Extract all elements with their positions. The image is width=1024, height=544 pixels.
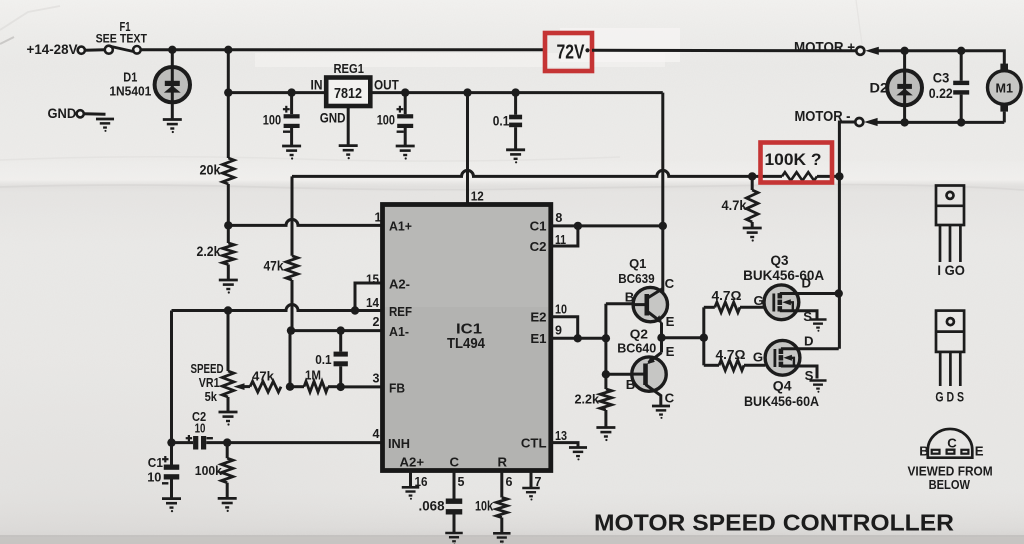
junction fb cap bottom [337, 383, 345, 391]
wire pin7 to ground [530, 471, 533, 488]
wire 2.2k to ground [227, 265, 230, 280]
junction pin8/11 bracket [574, 222, 582, 230]
wire pin13 CTL to ground [551, 443, 578, 447]
regulator REG1 7812 [326, 78, 370, 107]
wire pin5 to .068 cap [453, 471, 456, 499]
junction C3 top [957, 47, 965, 55]
junction C2 left / C1 column [167, 438, 175, 446]
junction 0.1 cap [511, 88, 519, 96]
svg-text:47k: 47k [252, 369, 275, 384]
svg-text:10: 10 [555, 303, 567, 317]
ground pin16 [402, 487, 419, 500]
svg-text:14: 14 [366, 296, 379, 310]
wire FB pin3 [341, 385, 383, 388]
wire motor+ rail [878, 51, 1004, 64]
junction D2 top [900, 47, 908, 55]
ground below 0.1 cap [506, 150, 525, 164]
svg-text:C3: C3 [933, 70, 950, 85]
resistor 1M [290, 385, 304, 388]
wire motor- line [878, 121, 1005, 124]
svg-text:5: 5 [458, 475, 465, 489]
svg-text:I GO: I GO [937, 263, 965, 278]
junction pin12 branch [463, 88, 471, 96]
resistor 100K inline [752, 175, 782, 178]
svg-text:M1: M1 [996, 81, 1014, 96]
junction D2 bottom [900, 118, 908, 126]
wire IN line to REG1 [228, 91, 326, 94]
resistor 4.7ohm Q3 gate [715, 302, 740, 312]
svg-text:CTL: CTL [521, 436, 547, 451]
wire 72V to motor+ [592, 49, 856, 53]
TO-220 package I G O (7812 pinout) [936, 186, 964, 263]
junction +12 rail / C1C2 [659, 222, 667, 230]
resistor 47k horizontal [250, 381, 281, 392]
svg-text:BUK456-60A: BUK456-60A [743, 268, 824, 283]
svg-text:6: 6 [506, 475, 513, 489]
wire C2 to pin4 [206, 441, 382, 444]
ground below 100k [218, 498, 237, 512]
wire pin9 E1 line [551, 337, 606, 340]
wire motor- column to drains [838, 176, 841, 348]
svg-text:0.1: 0.1 [315, 352, 331, 367]
svg-text:0.22: 0.22 [929, 86, 953, 101]
svg-text:9: 9 [555, 324, 562, 338]
junction 0.1 fb cap top [337, 326, 345, 334]
capacitor C3 0.22 [960, 51, 963, 81]
svg-text:INH: INH [388, 436, 410, 451]
capacitor C2 10uF [172, 441, 194, 444]
ground below C1 [162, 499, 181, 513]
svg-text:10k: 10k [475, 498, 493, 514]
svg-text:100k: 100k [195, 463, 223, 478]
capacitor 100uF input [290, 93, 293, 115]
svg-text:E: E [975, 443, 984, 458]
junction 100uF cap 1 [287, 88, 295, 96]
wire fuse to 72V rail [141, 48, 546, 51]
svg-text:A2+: A2+ [400, 455, 425, 470]
wire REF to pot [227, 311, 230, 372]
svg-text:5k: 5k [205, 389, 218, 404]
svg-text:7812: 7812 [334, 86, 362, 102]
svg-text:A2-: A2- [389, 277, 410, 292]
svg-text:C1: C1 [530, 219, 547, 234]
svg-text:R: R [498, 455, 508, 470]
svg-text:4.7k: 4.7k [722, 198, 747, 213]
arrow motor- [864, 118, 878, 126]
ground below 2.2k [219, 280, 238, 294]
svg-text:100K ?: 100K ? [765, 150, 822, 169]
svg-text:G: G [754, 293, 764, 308]
resistor 100k [226, 443, 229, 459]
svg-text:100: 100 [263, 111, 281, 127]
svg-text:VR1: VR1 [199, 375, 220, 390]
wire A1- pin2 [291, 329, 383, 332]
svg-text:100: 100 [377, 111, 395, 127]
svg-text:.068: .068 [419, 498, 445, 514]
svg-text:C2: C2 [530, 239, 547, 254]
svg-text:D: D [804, 334, 814, 349]
junction Q2 base / 2.2k [602, 370, 610, 378]
wire emitters to gate splitter [662, 336, 704, 339]
wire 20k to junction [227, 184, 230, 243]
svg-text:OUT: OUT [374, 77, 399, 92]
ground Q4 source [809, 381, 826, 393]
transistor pinout viewed from below [928, 429, 973, 458]
svg-text:8: 8 [555, 211, 562, 225]
svg-text:1M: 1M [305, 368, 321, 383]
junction Q3 drain [835, 289, 843, 297]
svg-text:B: B [625, 289, 635, 304]
junction 100uF cap 2 [401, 88, 409, 96]
wire 47k to A1- line [291, 280, 294, 331]
wire gnd terminal [84, 112, 106, 115]
wire pin8 C1 line [551, 224, 663, 227]
svg-text:C: C [665, 276, 675, 291]
svg-text:20k: 20k [200, 163, 221, 178]
svg-text:2: 2 [373, 315, 380, 329]
wire 47k column [291, 176, 294, 255]
svg-text:E: E [666, 314, 675, 329]
wire base to Q2 [606, 373, 632, 376]
ground below 10k [493, 533, 510, 544]
svg-text:S: S [803, 309, 812, 324]
svg-text:MOTOR +: MOTOR + [794, 39, 855, 56]
junction base column [602, 334, 610, 342]
svg-text:TL494: TL494 [447, 336, 485, 352]
svg-text:REF: REF [389, 304, 412, 319]
capacitor C1 10uF [170, 443, 173, 465]
wire pin6 to 10k [500, 471, 503, 498]
ground below .068 [445, 533, 462, 544]
capacitor .068 [446, 499, 463, 504]
svg-text:3: 3 [373, 372, 380, 386]
svg-text:Q3: Q3 [771, 253, 789, 268]
junction gate splitter [700, 334, 708, 342]
pot wiper arrow [234, 383, 245, 390]
junction 47k/1M [286, 383, 294, 391]
svg-text:E2: E2 [530, 310, 546, 325]
svg-text:Q4: Q4 [773, 379, 792, 394]
svg-text:72V: 72V [557, 42, 586, 64]
ground below REG1 [339, 146, 358, 160]
junction top rail / D1 [168, 46, 176, 54]
svg-text:4.7Ω: 4.7Ω [712, 289, 742, 303]
svg-text:BC640: BC640 [617, 341, 656, 356]
svg-text:47k: 47k [264, 259, 284, 274]
junction E1/E2 bracket [574, 334, 582, 342]
junction IN-line [224, 88, 232, 96]
wire to Q4 gate resistor [704, 364, 719, 367]
red annotation box 100K ? [761, 143, 833, 183]
svg-text:15: 15 [366, 273, 379, 287]
arrow motor+ [865, 47, 879, 55]
svg-text:B: B [919, 443, 929, 458]
svg-text:11: 11 [555, 233, 566, 247]
svg-text:10: 10 [147, 470, 161, 485]
transistor Q4 BUK456-60A mosfet [765, 340, 800, 375]
potentiometer VR1 5k [222, 371, 234, 397]
svg-text:10: 10 [195, 420, 206, 435]
wire input to fuse [85, 48, 105, 51]
svg-text:REG1: REG1 [334, 61, 364, 76]
motor M1 [988, 71, 1022, 105]
red annotation box 72V [545, 33, 592, 71]
svg-text:D: D [802, 276, 812, 291]
svg-text:+14-28V: +14-28V [27, 42, 78, 57]
ground below 100uF input [282, 146, 301, 160]
capacitor 0.1 bypass [514, 93, 517, 115]
op-amp U1 IC1 TL494 body [383, 205, 551, 471]
ground at CTL [569, 448, 587, 461]
svg-text:A1-: A1- [389, 324, 409, 339]
svg-text:E: E [666, 344, 675, 359]
svg-text:GND: GND [48, 105, 77, 121]
svg-text:2.2k: 2.2k [197, 244, 221, 259]
svg-text:GND: GND [320, 110, 346, 126]
ground pin7 [522, 488, 539, 501]
svg-text:C: C [665, 390, 675, 405]
wire gate column [702, 307, 705, 365]
resistor 4.7ohm Q4 gate [719, 360, 744, 370]
svg-text:C: C [450, 455, 460, 470]
wire +12V rail from REG1 OUT [370, 91, 663, 94]
svg-text:D1: D1 [123, 71, 137, 85]
svg-text:4: 4 [373, 427, 380, 441]
node MOTOR - terminal [855, 118, 863, 126]
wire A1+ pin1 with hop [228, 219, 382, 225]
junction Q1/Q2 emitters [657, 334, 665, 342]
svg-text:IN: IN [311, 77, 323, 92]
wire rail down to 20k [227, 50, 230, 158]
ground below Q2 [652, 406, 670, 419]
svg-text:FB: FB [389, 381, 405, 396]
svg-text:Q1: Q1 [629, 256, 646, 271]
junction 100k top [223, 438, 231, 446]
ground below 4.7k [743, 228, 762, 242]
wire to Q3 gate resistor [704, 306, 715, 309]
junction top rail / 20k branch [224, 46, 232, 54]
svg-text:1N5401: 1N5401 [109, 84, 151, 99]
svg-text:A1+: A1+ [389, 219, 412, 234]
svg-text:13: 13 [555, 429, 567, 443]
svg-text:MOTOR SPEED CONTROLLER: MOTOR SPEED CONTROLLER [594, 510, 954, 536]
TO-220 package G D S (mosfet pinout) [936, 311, 964, 386]
ground Q3 source [809, 320, 826, 332]
svg-text:VIEWED FROM: VIEWED FROM [908, 465, 993, 479]
svg-text:E1: E1 [530, 331, 546, 346]
svg-text:4.7Ω: 4.7Ω [716, 348, 746, 362]
junction 4.7k / 100K [748, 172, 756, 180]
junction speed pot branch [224, 306, 232, 314]
ground below pot [219, 412, 238, 426]
resistor 2.2k base pulldown [604, 374, 607, 389]
wire M1 bottom [1003, 112, 1006, 123]
svg-text:SPEED: SPEED [191, 361, 224, 376]
wire A1- to 47k/1M junction [289, 331, 292, 387]
resistor 2.2k [223, 243, 235, 265]
junction C3 bottom [957, 118, 965, 126]
capacitor 0.1 feedback [339, 331, 342, 352]
svg-text:Q2: Q2 [630, 326, 648, 341]
wire pin15 bracket [355, 283, 383, 311]
resistor 10k [496, 497, 507, 517]
svg-text:B: B [626, 377, 636, 392]
fuse F1 SEE TEXT [105, 46, 113, 54]
svg-text:G D S: G D S [935, 390, 964, 405]
ground below D1 [163, 120, 182, 134]
svg-text:BUK456-60A: BUK456-60A [744, 394, 819, 409]
wire base column Q1 [604, 304, 607, 375]
junction pin15 bracket [351, 306, 359, 314]
wire pin10 E2 bracket [551, 317, 578, 339]
junction motor- column [835, 172, 843, 180]
wire REF pin14 with hop [172, 305, 383, 311]
resistor 20k [223, 158, 235, 184]
ground below 100uF output [396, 146, 415, 160]
capacitor 100uF output [404, 93, 407, 115]
resistor 4.7k pull-down [751, 176, 754, 190]
ground below 2.2k base [596, 428, 615, 442]
wire feedback line with hops [292, 170, 752, 176]
wire motor- to drain column [839, 122, 855, 176]
svg-text:12: 12 [471, 190, 484, 204]
wire pin11 bracket [551, 226, 578, 246]
svg-text:0.1: 0.1 [493, 114, 510, 129]
resistor 47k vertical [286, 256, 298, 280]
svg-text:C1: C1 [148, 455, 163, 470]
wire REF down to C2/INH [170, 311, 173, 443]
svg-text:SEE TEXT: SEE TEXT [96, 31, 148, 45]
wire pin16 to ground [409, 471, 412, 487]
svg-text:2.2k: 2.2k [575, 392, 600, 407]
svg-text:BC639: BC639 [618, 271, 654, 286]
svg-text:C: C [947, 436, 957, 451]
wire REG1 gnd pin [347, 106, 350, 145]
junction 47k bottom [287, 326, 295, 334]
svg-text:G: G [753, 350, 763, 365]
svg-text:BELOW: BELOW [929, 478, 970, 492]
junction A1+ line [224, 221, 232, 229]
wire pin 12 branch [466, 93, 469, 205]
ground at GND terminal [96, 119, 114, 132]
wire +12V rail down to Q1 collector [661, 93, 664, 292]
